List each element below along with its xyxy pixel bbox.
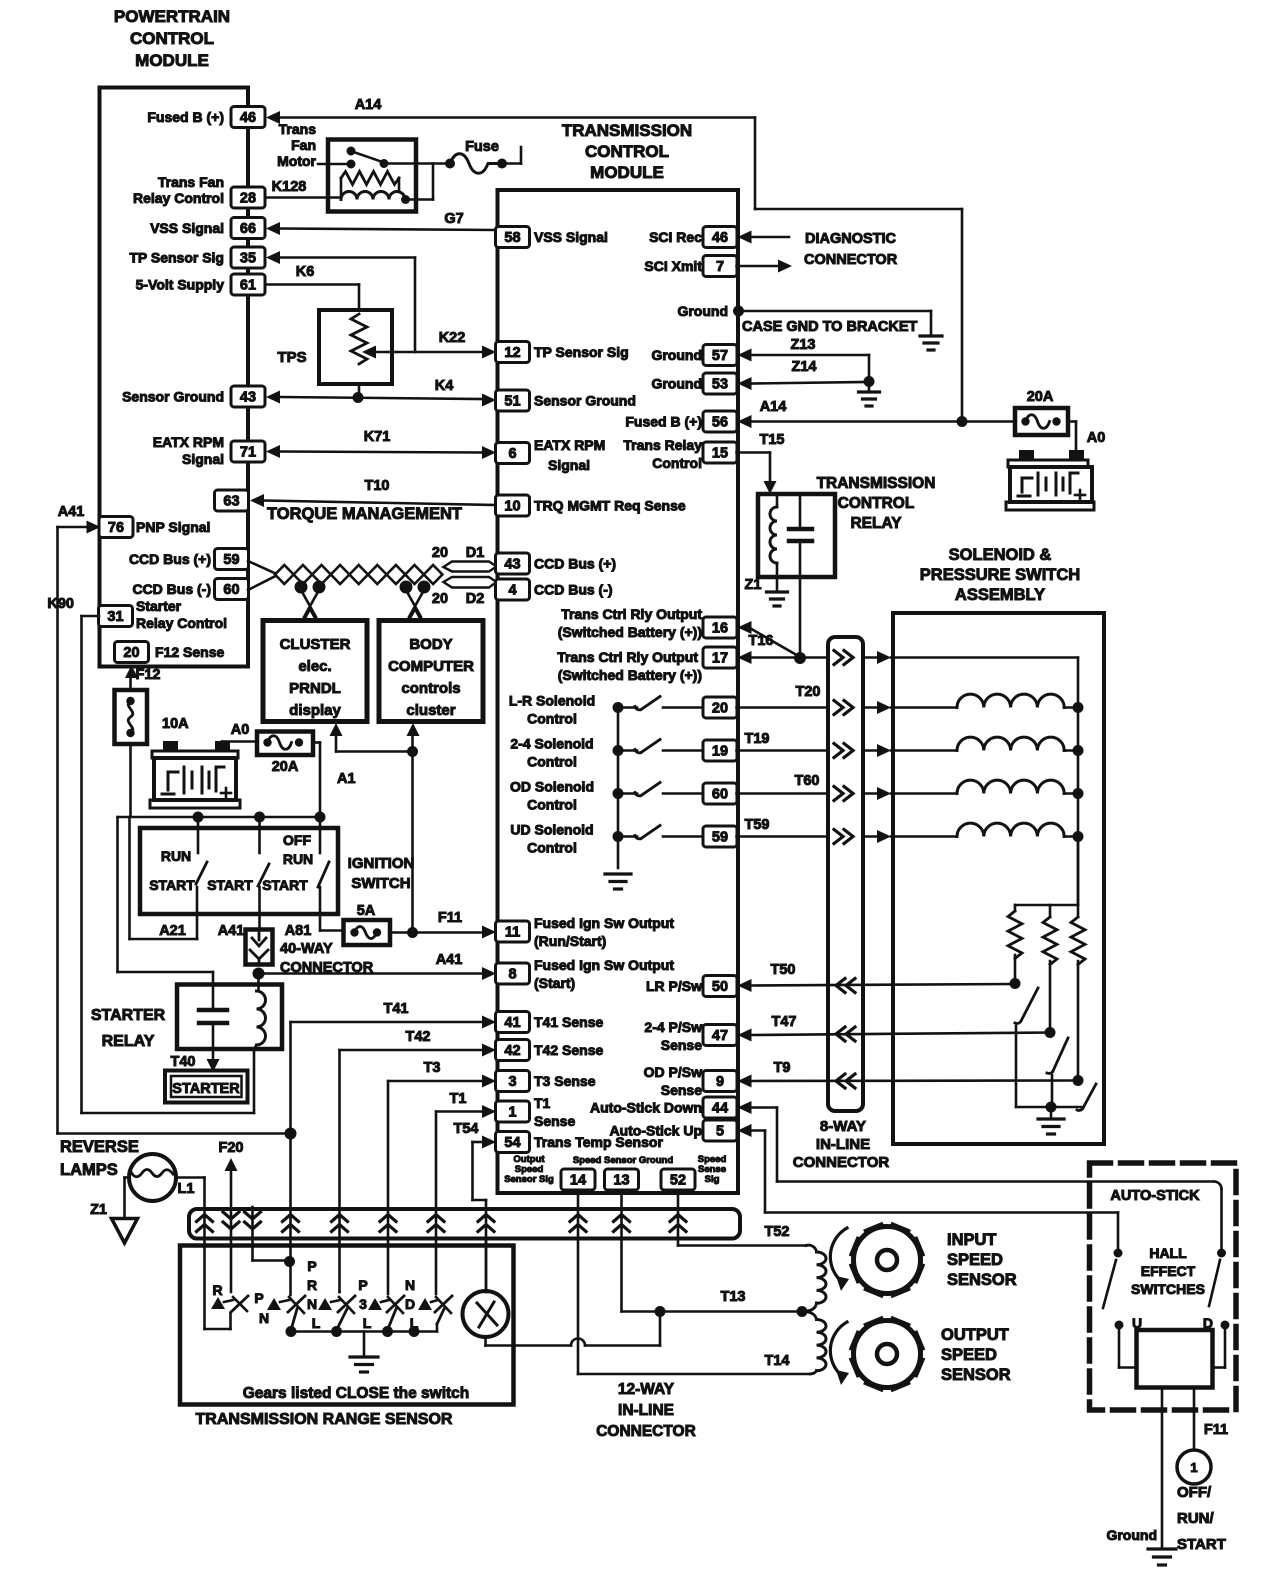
svg-text:K71: K71 <box>364 429 391 445</box>
svg-text:PNP Signal: PNP Signal <box>136 519 210 535</box>
svg-text:TP Sensor Sig: TP Sensor Sig <box>534 344 629 360</box>
wire K128 label <box>272 179 307 195</box>
wire F12 label <box>136 667 161 683</box>
svg-text:Auto-Stick Down: Auto-Stick Down <box>590 1100 702 1116</box>
PCM pin 63 <box>215 490 249 511</box>
svg-text:T1: T1 <box>450 1091 467 1107</box>
Z13/Z14 ground symbol <box>859 382 880 407</box>
input speed sensor gear <box>852 1225 922 1295</box>
TCM label 2-4 Solenoid <box>510 736 593 770</box>
svg-text:12-WAY: 12-WAY <box>618 1381 675 1398</box>
svg-text:Z13: Z13 <box>791 337 816 353</box>
svg-text:Ground: Ground <box>651 376 702 392</box>
svg-text:Fuse: Fuse <box>465 139 499 155</box>
wire T42 <box>340 1044 497 1293</box>
PCM pin 59 <box>129 549 249 570</box>
wire T59 label <box>745 817 770 833</box>
TCM pin 17 label <box>557 649 702 683</box>
12-way chevron at 621.5 <box>614 1215 630 1232</box>
svg-text:60: 60 <box>223 582 239 598</box>
svg-text:Sensor Ground: Sensor Ground <box>534 393 636 409</box>
battery (left) <box>150 741 240 808</box>
svg-text:43: 43 <box>504 557 520 573</box>
TCM pin 53 (right) <box>651 373 737 394</box>
svg-text:P: P <box>307 1258 316 1274</box>
svg-text:CASE GND TO BRACKET: CASE GND TO BRACKET <box>742 319 917 335</box>
pressure switch resistor 1 <box>1008 905 1022 984</box>
svg-text:OD P/Sw: OD P/Sw <box>644 1064 702 1080</box>
svg-text:INPUT: INPUT <box>947 1231 997 1249</box>
svg-text:T15: T15 <box>760 432 785 448</box>
svg-text:PRESSURE SWITCH: PRESSURE SWITCH <box>920 566 1080 584</box>
svg-text:OUTPUT: OUTPUT <box>941 1326 1009 1344</box>
wire A0 (right) label <box>1087 430 1106 446</box>
wire A41 to pin 8 <box>264 967 496 980</box>
OUTPUT SPEED SENSOR label <box>941 1326 1011 1384</box>
TRS PRNL labels <box>307 1258 321 1331</box>
wire T3 label <box>424 1060 441 1076</box>
wire T42 label <box>406 1029 431 1045</box>
svg-text:Z1: Z1 <box>745 577 762 593</box>
svg-text:T13: T13 <box>721 1289 746 1305</box>
svg-text:VSS Signal: VSS Signal <box>150 220 224 236</box>
body computer feed wire <box>407 723 420 933</box>
fuse 10A box <box>115 690 148 744</box>
svg-text:SCI Xmit: SCI Xmit <box>644 258 702 274</box>
TCM label UD Solenoid <box>510 822 593 856</box>
PCM pin 43 <box>122 386 265 407</box>
svg-text:PRNDL: PRNDL <box>289 680 341 697</box>
TRS P/N switch <box>267 1296 305 1330</box>
12-way chevron at 486 <box>478 1215 494 1232</box>
wire T19 <box>737 744 958 758</box>
svg-text:Motor: Motor <box>277 153 316 169</box>
svg-text:EATX RPM: EATX RPM <box>153 434 224 450</box>
svg-text:CCD Bus (+): CCD Bus (+) <box>534 556 616 572</box>
TCM pin 16 label <box>558 606 703 640</box>
svg-text:76: 76 <box>108 520 124 536</box>
Z1 (relay) label <box>745 577 762 593</box>
svg-text:10: 10 <box>504 499 520 515</box>
svg-text:D2: D2 <box>466 591 485 607</box>
svg-text:SWITCH: SWITCH <box>351 875 410 892</box>
svg-text:A41: A41 <box>58 504 85 520</box>
svg-text:Control: Control <box>652 455 702 471</box>
svg-text:K128: K128 <box>272 179 307 195</box>
svg-text:TRANSMISSION: TRANSMISSION <box>562 121 692 140</box>
wire T10 label <box>365 478 390 494</box>
wire K4 label <box>435 378 454 394</box>
svg-text:CONNECTOR: CONNECTOR <box>596 1423 696 1440</box>
Ground label (auto-stick) <box>1106 1527 1157 1543</box>
svg-text:T42: T42 <box>406 1029 431 1045</box>
svg-text:L1: L1 <box>178 1181 195 1197</box>
svg-text:IN-LINE: IN-LINE <box>816 1136 870 1153</box>
TRS P3L labels <box>358 1277 371 1331</box>
TCM pin 19 (right) <box>703 740 737 761</box>
pressure switch ground <box>1038 1107 1064 1134</box>
AUTO-STICK dashed box <box>1090 1163 1237 1410</box>
fuse 20A (left) label <box>272 759 299 775</box>
svg-text:20: 20 <box>432 591 448 607</box>
HALL EFFECT SWITCHES label <box>1131 1245 1205 1297</box>
hall switch up <box>1103 1249 1123 1309</box>
PCM pin 66 <box>150 218 265 239</box>
12-WAY IN-LINE CONNECTOR label <box>596 1381 696 1440</box>
wire K128 <box>266 196 341 199</box>
svg-text:20: 20 <box>123 645 139 661</box>
svg-text:1: 1 <box>508 1105 516 1121</box>
output speed sensor gear <box>852 1319 922 1389</box>
svg-text:T1: T1 <box>534 1095 551 1111</box>
wire F20 <box>225 1158 238 1292</box>
svg-text:53: 53 <box>712 377 728 393</box>
svg-text:58: 58 <box>504 230 520 246</box>
pressure switch ground rail <box>1016 1102 1081 1113</box>
svg-text:F11: F11 <box>438 910 462 926</box>
starter box <box>165 1071 248 1103</box>
svg-text:CONNECTOR: CONNECTOR <box>793 1154 890 1171</box>
svg-text:START: START <box>1177 1536 1226 1553</box>
TCM pin 9 label <box>644 1064 703 1098</box>
fuse 20A (right) label <box>1027 389 1054 405</box>
wire T54 <box>473 1136 497 1293</box>
wire to pin 16 <box>738 621 801 657</box>
TRS P3L switch <box>368 1296 404 1330</box>
cluster module box <box>263 621 367 722</box>
svg-text:T3: T3 <box>424 1060 441 1076</box>
TCM pin 20 (right) <box>703 697 737 718</box>
svg-text:28: 28 <box>240 191 256 207</box>
wire T50 label <box>771 962 796 978</box>
TCM pin 16 (right) <box>703 617 737 638</box>
svg-text:OD Solenoid: OD Solenoid <box>510 779 594 795</box>
svg-text:Signal: Signal <box>548 457 590 473</box>
svg-text:19: 19 <box>712 744 728 760</box>
svg-text:MODULE: MODULE <box>590 163 664 182</box>
svg-text:START: START <box>262 877 308 893</box>
svg-text:5-Volt Supply: 5-Volt Supply <box>136 277 225 293</box>
svg-text:Control: Control <box>527 797 577 813</box>
Solenoid and Pressure Switch Assembly title <box>920 546 1080 604</box>
wire T15 <box>737 453 777 495</box>
STARTER RELAY label <box>91 1007 166 1050</box>
wire T1 <box>436 1105 496 1294</box>
wire T13 <box>622 1190 808 1317</box>
TCM pin 51 <box>496 390 636 411</box>
svg-text:Trans: Trans <box>279 121 317 137</box>
svg-text:16: 16 <box>712 621 728 637</box>
wire T41 label <box>384 1001 409 1017</box>
svg-text:8: 8 <box>508 967 516 983</box>
svg-text:T20: T20 <box>796 684 821 700</box>
wire T16 junction <box>794 652 806 664</box>
wire pin35 to K22 <box>266 251 415 352</box>
svg-text:RUN: RUN <box>161 848 191 864</box>
svg-text:12: 12 <box>504 345 520 361</box>
svg-text:66: 66 <box>240 221 256 237</box>
wire T9 label <box>774 1060 791 1076</box>
svg-text:T54: T54 <box>454 1121 479 1137</box>
svg-text:57: 57 <box>712 348 728 364</box>
svg-text:SPEED: SPEED <box>941 1346 997 1364</box>
svg-text:50: 50 <box>712 979 728 995</box>
svg-text:DIAGNOSTIC: DIAGNOSTIC <box>805 231 897 247</box>
svg-text:41: 41 <box>504 1015 520 1031</box>
svg-text:Ground: Ground <box>677 303 728 319</box>
wire T16 row <box>834 651 1078 906</box>
svg-text:13: 13 <box>613 1173 629 1189</box>
svg-text:T60: T60 <box>795 773 820 789</box>
svg-text:Trans Relay: Trans Relay <box>623 437 702 453</box>
svg-text:RUN: RUN <box>283 851 313 867</box>
wire A14 label <box>355 97 382 113</box>
svg-text:44: 44 <box>712 1101 728 1117</box>
svg-text:Control: Control <box>527 711 577 727</box>
svg-text:Ground: Ground <box>651 347 702 363</box>
wire T9 <box>738 1074 1079 1088</box>
svg-text:P: P <box>358 1277 367 1293</box>
svg-text:CCD Bus (-): CCD Bus (-) <box>534 582 613 598</box>
TCM pin 43 <box>496 553 617 574</box>
svg-text:1: 1 <box>1190 1460 1197 1475</box>
wire K71 label <box>364 429 391 445</box>
svg-text:EATX RPM: EATX RPM <box>534 437 605 453</box>
svg-text:RELAY: RELAY <box>850 515 902 532</box>
svg-text:Z14: Z14 <box>792 359 817 375</box>
svg-text:Sensor Sig: Sensor Sig <box>504 1174 554 1185</box>
12-way chevron (down) at 252.5 <box>245 1212 261 1229</box>
TRS P/N labels <box>254 1290 269 1326</box>
svg-text:SWITCHES: SWITCHES <box>1131 1281 1205 1297</box>
TCM pin 10 <box>496 495 686 516</box>
transmission control relay ground <box>767 577 788 606</box>
wire G7 label <box>444 211 463 227</box>
hall switch down <box>1209 1249 1226 1307</box>
LR pressure switch <box>1010 978 1039 1107</box>
svg-text:Ground: Ground <box>1106 1527 1157 1543</box>
svg-text:A21: A21 <box>159 923 186 939</box>
svg-text:SENSOR: SENSOR <box>941 1366 1011 1384</box>
12-way chevron at 290.5 <box>283 1215 299 1232</box>
svg-text:TORQUE MANAGEMENT: TORQUE MANAGEMENT <box>267 505 462 523</box>
SCI Xmit wire <box>737 260 793 273</box>
ignition column START <box>207 817 269 930</box>
TCM pin 47 label <box>644 1019 702 1053</box>
TRS lamp wire <box>485 1238 488 1292</box>
connector circle 1 <box>1177 1450 1211 1484</box>
wire T14 label <box>765 1353 790 1369</box>
wire T59 <box>737 830 958 844</box>
svg-text:CONNECTOR: CONNECTOR <box>804 252 898 268</box>
svg-text:Auto-Stick Up: Auto-Stick Up <box>609 1123 702 1139</box>
wire F11 (auto-stick) label <box>1204 1422 1228 1438</box>
svg-text:3: 3 <box>508 1074 516 1090</box>
svg-text:cluster: cluster <box>406 702 455 719</box>
svg-text:Fused Ign Sw Output: Fused Ign Sw Output <box>534 957 674 973</box>
TRS PRNL switch <box>318 1296 355 1330</box>
trans fan relay contact wire <box>384 164 450 200</box>
svg-text:5A: 5A <box>357 903 376 919</box>
diagnostic connector label <box>804 231 898 268</box>
svg-text:14: 14 <box>570 1173 586 1189</box>
solenoid coil T60 <box>957 780 1084 799</box>
svg-text:OFF: OFF <box>283 832 311 848</box>
wire T40 <box>207 1059 220 1072</box>
ignition feed bus <box>118 812 326 823</box>
Transmission Control Module title <box>562 121 692 182</box>
wire A14 to pin 56 label <box>760 399 787 415</box>
wire K6 <box>266 285 359 311</box>
svg-text:F12 Sense: F12 Sense <box>155 644 224 660</box>
12-way chevron at 678 <box>670 1215 686 1232</box>
TRS common rail <box>286 1326 438 1337</box>
wire A0 label <box>231 722 250 738</box>
svg-text:K4: K4 <box>435 378 454 394</box>
svg-text:Fan: Fan <box>291 137 316 153</box>
solenoid assembly box <box>893 613 1104 1144</box>
TRS R switch wires <box>205 1313 231 1329</box>
svg-text:START: START <box>149 877 195 893</box>
2-4 pressure switch <box>1045 1027 1069 1107</box>
wire T13 label <box>721 1289 746 1305</box>
svg-text:LR P/Sw: LR P/Sw <box>646 978 702 994</box>
transmission control relay contact <box>789 494 812 658</box>
PCM pin 46 <box>147 107 265 128</box>
CCD body computer tap <box>400 581 431 621</box>
svg-text:2-4 P/Sw: 2-4 P/Sw <box>644 1019 702 1035</box>
output sensor coil <box>802 1312 826 1375</box>
svg-text:A0: A0 <box>1087 430 1106 446</box>
wire T54 label <box>454 1121 479 1137</box>
TCM pin 4 <box>496 579 613 600</box>
svg-text:T42 Sense: T42 Sense <box>534 1042 603 1058</box>
hall contact D <box>1203 1315 1230 1331</box>
TRS lamp output wire <box>486 1312 661 1346</box>
TCM pin 46 (right) <box>649 227 737 248</box>
wire Z13 label <box>791 337 816 353</box>
svg-text:60: 60 <box>712 787 728 803</box>
TCM pin 15 label <box>623 437 702 471</box>
svg-text:F11: F11 <box>1204 1422 1228 1438</box>
12-way chevron at 388 <box>380 1215 396 1232</box>
CCD cluster tap <box>295 581 326 621</box>
svg-text:IN-LINE: IN-LINE <box>618 1402 674 1419</box>
svg-text:LAMPS: LAMPS <box>60 1161 118 1179</box>
svg-text:K22: K22 <box>439 330 466 346</box>
svg-text:3: 3 <box>359 1296 367 1312</box>
svg-text:N: N <box>307 1296 317 1312</box>
svg-text:9: 9 <box>716 1074 724 1090</box>
TCM label L-R Solenoid <box>509 693 595 727</box>
svg-text:63: 63 <box>223 494 239 510</box>
TRANSMISSION RANGE SENSOR label <box>196 1411 453 1428</box>
svg-text:T9: T9 <box>774 1060 791 1076</box>
svg-text:Speed Sensor Ground: Speed Sensor Ground <box>573 1155 673 1166</box>
svg-text:R: R <box>212 1282 222 1298</box>
svg-text:Sense: Sense <box>661 1082 702 1098</box>
wire F11 label <box>438 910 462 926</box>
PCM pin 31 <box>99 598 228 631</box>
svg-text:11: 11 <box>505 925 520 941</box>
TCM pin 54 <box>496 1132 664 1153</box>
svg-text:RUN/: RUN/ <box>1177 1510 1214 1527</box>
starter relay coil <box>254 974 266 1114</box>
svg-text:71: 71 <box>240 445 256 461</box>
TCM solenoid driver switch 4 <box>613 826 704 843</box>
CASE GND TO BRACKET label <box>742 319 917 335</box>
TRS ground <box>350 1332 378 1373</box>
svg-text:display: display <box>289 702 341 719</box>
PCM pin 28 <box>231 187 265 208</box>
svg-text:Z1: Z1 <box>90 1202 107 1218</box>
svg-text:2-4 Solenoid: 2-4 Solenoid <box>510 736 593 752</box>
svg-text:Trans Ctrl Rly Output: Trans Ctrl Rly Output <box>561 606 702 622</box>
PCM pin 76 <box>99 517 210 538</box>
TCM pin 15 (right) <box>703 442 737 463</box>
svg-text:TRQ MGMT Req Sense: TRQ MGMT Req Sense <box>534 498 686 514</box>
wire T20 <box>737 701 958 715</box>
wire T50 <box>738 979 1016 993</box>
svg-text:Sense: Sense <box>661 1037 702 1053</box>
wire fuse to bus <box>129 744 132 816</box>
TORQUE MANAGEMENT label <box>267 505 462 523</box>
svg-text:AUTO-STICK: AUTO-STICK <box>1110 1188 1200 1204</box>
svg-text:L: L <box>363 1315 372 1331</box>
svg-text:T3 Sense: T3 Sense <box>534 1073 596 1089</box>
Gears listed CLOSE the switch label <box>243 1385 470 1402</box>
svg-text:(Switched Battery (+)): (Switched Battery (+)) <box>558 667 702 683</box>
svg-text:BODY: BODY <box>409 636 452 653</box>
svg-text:L: L <box>312 1315 321 1331</box>
input sensor coil <box>807 1252 826 1311</box>
svg-text:4: 4 <box>508 583 516 599</box>
TRS box <box>180 1246 514 1405</box>
svg-text:20A: 20A <box>1027 389 1054 405</box>
svg-text:20: 20 <box>712 701 728 717</box>
TCM pin 1 <box>496 1095 576 1129</box>
svg-text:K6: K6 <box>296 264 315 280</box>
TCM solenoid driver switch 3 <box>613 783 704 800</box>
OD pressure switch <box>1073 1075 1097 1110</box>
svg-text:UD Solenoid: UD Solenoid <box>510 822 593 838</box>
TPS box <box>319 310 392 384</box>
Trans Fan Motor label <box>277 121 316 169</box>
PCM pin 28 label <box>133 174 224 206</box>
REVERSE LAMPS label <box>60 1138 139 1179</box>
svg-text:5: 5 <box>716 1124 724 1140</box>
AUTO-STICK label <box>1110 1188 1200 1204</box>
Powertrain Control Module title <box>114 7 230 70</box>
wire Z14 <box>738 376 875 390</box>
wire A41 to PNP label <box>58 504 85 520</box>
wire G7 <box>266 222 496 235</box>
12-way chevron (down) at 231 <box>223 1212 239 1229</box>
Z1 (lamp) label <box>90 1202 107 1218</box>
svg-text:35: 35 <box>240 251 256 267</box>
wire K22 label <box>439 330 466 346</box>
TCM pin 3 <box>496 1071 596 1092</box>
trans fan relay box <box>328 140 416 212</box>
svg-text:D1: D1 <box>466 545 485 561</box>
svg-text:A14: A14 <box>355 97 382 113</box>
svg-text:15: 15 <box>712 446 728 462</box>
TCM bottom pin small label middle <box>573 1155 673 1166</box>
svg-text:43: 43 <box>240 390 256 406</box>
body computer box <box>379 621 483 722</box>
40-WAY CONNECTOR label <box>280 941 374 976</box>
OFF RUN START label <box>1177 1484 1226 1553</box>
